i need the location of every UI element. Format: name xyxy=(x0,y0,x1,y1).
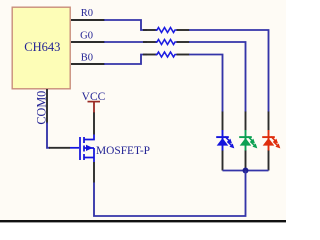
wire R3 to blue LED xyxy=(189,55,223,113)
svg-text:COM0: COM0 xyxy=(35,91,49,125)
wire G0 to resistor R2 xyxy=(104,41,147,43)
wire R2 to green LED xyxy=(189,42,246,112)
blue LED D1 symbol xyxy=(216,130,236,151)
green LED D2 symbol xyxy=(239,130,259,151)
svg-text:B0: B0 xyxy=(81,53,93,64)
resistor R1 zigzag body xyxy=(156,28,178,33)
red LED D3 symbol xyxy=(262,130,282,151)
blue LED D1 top pin xyxy=(222,112,224,131)
transistor Q1 gate pin xyxy=(49,147,70,149)
transistor Q1 source pin xyxy=(93,162,95,183)
resistor R1 right pin xyxy=(177,29,190,31)
red LED D3 bottom pin xyxy=(268,151,270,171)
wire R0 to resistor R? xyxy=(104,20,147,30)
pin B0 (CH643 right, pin stub) xyxy=(71,63,105,65)
pin R0 (CH643 right, pin stub) xyxy=(71,19,105,21)
resistor R2 left pin xyxy=(143,41,157,43)
blue LED D1 bottom pin xyxy=(222,151,224,171)
wire common to MOSFET source xyxy=(94,171,246,217)
resistor R3 left pin xyxy=(143,54,157,56)
junction dot xyxy=(243,168,249,174)
svg-text:VCC: VCC xyxy=(82,91,106,103)
sheet bottom border xyxy=(0,220,286,222)
green LED D2 top pin xyxy=(245,112,247,131)
resistor R3 right pin xyxy=(177,54,190,56)
green LED D2 bottom pin xyxy=(245,151,247,171)
svg-text:G0: G0 xyxy=(80,31,93,42)
transistor Q1 drain pin xyxy=(93,112,95,135)
svg-text:MOSFET-P: MOSFET-P xyxy=(96,145,150,157)
red LED D3 top pin xyxy=(268,112,270,131)
IC U? CH643 body xyxy=(12,7,70,89)
transistor Q1 MOSFET-P symbol xyxy=(70,135,94,163)
wire LED common bus xyxy=(223,170,269,172)
wire R1 to red LED xyxy=(189,30,269,112)
wire COM0 to gate xyxy=(47,123,50,148)
resistor R1 left pin xyxy=(143,29,157,31)
svg-text:R0: R0 xyxy=(81,8,93,19)
resistor R3 zigzag body xyxy=(156,52,178,57)
resistor R2 zigzag body xyxy=(156,40,178,45)
svg-text:CH643: CH643 xyxy=(24,40,60,54)
power port VCC stub xyxy=(93,102,95,113)
resistor R2 right pin xyxy=(177,41,190,43)
pin COM0 (CH643 bottom, pin stub) xyxy=(46,89,48,124)
power port VCC bar xyxy=(88,101,101,103)
wire B0 to resistor R3 xyxy=(104,55,147,65)
pin G0 (CH643 right, pin stub) xyxy=(71,41,105,43)
